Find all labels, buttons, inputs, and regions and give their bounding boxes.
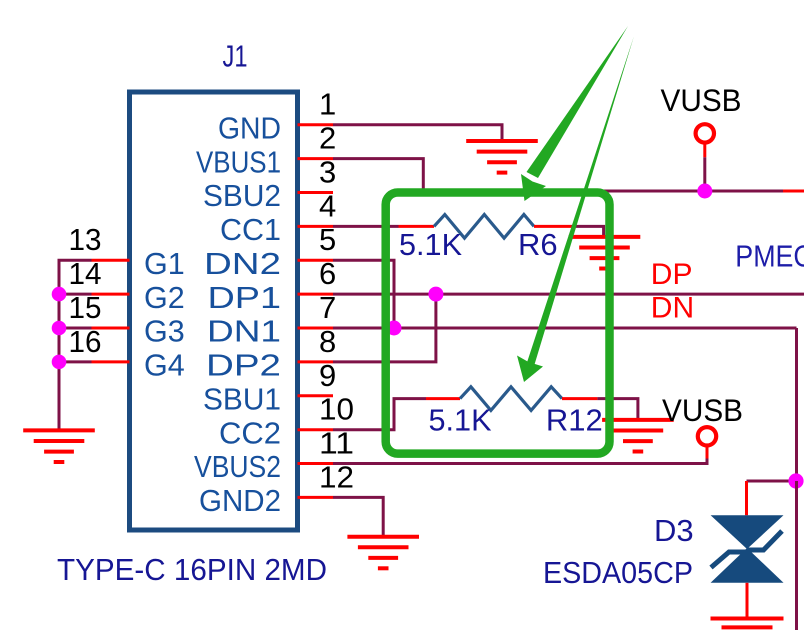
svg-text:DP1: DP1 bbox=[208, 281, 282, 315]
svg-text:CC1: CC1 bbox=[220, 213, 281, 247]
wire R6 to ground bbox=[572, 226, 604, 237]
wire pin12 GND2 to ground bbox=[333, 497, 383, 536]
svg-text:TYPE-C 16PIN 2MD: TYPE-C 16PIN 2MD bbox=[57, 552, 327, 587]
resistor R6 5.1K bbox=[399, 215, 572, 239]
svg-text:SBU1: SBU1 bbox=[203, 383, 281, 417]
svg-text:5.1K: 5.1K bbox=[429, 403, 492, 438]
svg-text:ESDA05CP: ESDA05CP bbox=[543, 555, 693, 590]
svg-text:1: 1 bbox=[319, 87, 336, 122]
svg-text:PMEG: PMEG bbox=[735, 239, 804, 274]
resistor R12 5.1K bbox=[426, 387, 597, 411]
wire VUSB stem to rail bbox=[703, 157, 706, 191]
wire DN drop to D3 bbox=[795, 328, 798, 481]
ground (R12) bbox=[602, 420, 674, 452]
power port VUSB (top) bbox=[661, 82, 742, 157]
svg-text:VBUS1: VBUS1 bbox=[196, 145, 281, 179]
pin 6 bbox=[298, 256, 337, 294]
wire DN net bbox=[333, 327, 797, 330]
svg-text:DP2: DP2 bbox=[206, 349, 281, 383]
svg-text:G2: G2 bbox=[144, 281, 185, 315]
junction G4 bbox=[52, 355, 67, 370]
svg-text:DN: DN bbox=[651, 292, 694, 325]
svg-text:VBUS2: VBUS2 bbox=[194, 450, 281, 484]
annotation arrow 1 (to R6) bbox=[521, 26, 628, 201]
wire DN continues down bbox=[795, 481, 798, 630]
svg-text:DP: DP bbox=[651, 258, 693, 291]
svg-text:SBU2: SBU2 bbox=[203, 179, 281, 213]
pin 2 bbox=[298, 121, 337, 159]
ground (D3) bbox=[711, 619, 784, 628]
pin 13 bbox=[69, 222, 130, 260]
pin 11 bbox=[298, 426, 355, 464]
wire DP net bbox=[333, 293, 804, 296]
svg-text:CC2: CC2 bbox=[219, 416, 281, 450]
svg-text:GND: GND bbox=[218, 111, 281, 145]
svg-text:DN1: DN1 bbox=[207, 315, 281, 349]
junction DN (pins 5,7) bbox=[387, 321, 402, 336]
svg-text:J1: J1 bbox=[223, 39, 248, 74]
ground (shield pins) bbox=[23, 430, 95, 462]
pin 15 bbox=[69, 290, 130, 328]
svg-text:VUSB: VUSB bbox=[662, 392, 743, 428]
wire pin4 CC1 to R6 bbox=[333, 225, 399, 228]
svg-text:GND2: GND2 bbox=[199, 484, 281, 518]
wire R12 to ground bbox=[597, 399, 638, 420]
pin D3 top bbox=[745, 481, 748, 515]
ground (CC1/R6) bbox=[569, 237, 641, 269]
svg-text:DN2: DN2 bbox=[204, 247, 281, 281]
pin 9 bbox=[298, 358, 337, 396]
wire pin10 CC2 to R12 bbox=[333, 399, 426, 430]
svg-text:VUSB: VUSB bbox=[661, 82, 742, 118]
pin 1 bbox=[298, 87, 337, 125]
wire pin1 GND to ground bbox=[333, 125, 502, 141]
svg-text:13: 13 bbox=[69, 222, 102, 257]
svg-text:D3: D3 bbox=[654, 513, 694, 548]
wire pin16 stub joins chain bbox=[59, 360, 92, 363]
pin stub PMEG anode bbox=[783, 190, 804, 193]
pin D3 bottom bbox=[746, 583, 749, 619]
junction DP (pins 6,8) bbox=[428, 287, 443, 302]
junction G2 bbox=[52, 287, 67, 302]
ground (pin 1 GND) bbox=[466, 141, 538, 173]
svg-text:G1: G1 bbox=[144, 247, 185, 281]
wire pin14 stub joins chain bbox=[59, 293, 92, 296]
junction G3 bbox=[52, 321, 67, 336]
pin 14 bbox=[69, 256, 130, 294]
svg-text:R6: R6 bbox=[518, 227, 558, 262]
wire pin2 VBUS1 to VUSB rail bbox=[333, 159, 423, 191]
power port VUSB (lower) bbox=[662, 392, 743, 459]
connector J1 body bbox=[130, 92, 298, 530]
pin 8 bbox=[298, 324, 337, 362]
TVS diode D3 bbox=[711, 515, 784, 583]
svg-text:5.1K: 5.1K bbox=[399, 227, 462, 262]
pin 4 bbox=[298, 188, 337, 226]
wire pin11 VBUS2 to VUSB port bbox=[333, 459, 707, 464]
pin 7 bbox=[298, 290, 337, 328]
annotation arrow 2 (to R12) bbox=[517, 36, 634, 382]
annotation green highlight box bbox=[386, 193, 610, 454]
junction VUSB rail bbox=[697, 184, 712, 199]
pin 3 bbox=[298, 155, 337, 193]
pin 10 bbox=[298, 392, 355, 430]
wire D3 branch bbox=[747, 480, 797, 483]
pin 12 bbox=[298, 459, 355, 497]
pin 5 bbox=[298, 222, 337, 260]
wire VUSB rail horizontal bbox=[423, 190, 783, 193]
svg-text:R12: R12 bbox=[546, 403, 603, 438]
svg-text:G4: G4 bbox=[144, 349, 185, 383]
junction D3/DN bbox=[788, 473, 803, 488]
wire ground pins chain bbox=[59, 260, 92, 430]
wire pin8 DP2 to DP bbox=[333, 294, 436, 362]
svg-text:4: 4 bbox=[319, 188, 336, 223]
wire pin5 DN2 to DN bbox=[333, 260, 394, 328]
wire pin15 stub joins chain bbox=[59, 327, 92, 330]
pin 16 bbox=[69, 324, 130, 362]
svg-text:10: 10 bbox=[319, 392, 354, 427]
ground (GND2) bbox=[347, 537, 419, 569]
svg-text:G3: G3 bbox=[144, 315, 185, 349]
